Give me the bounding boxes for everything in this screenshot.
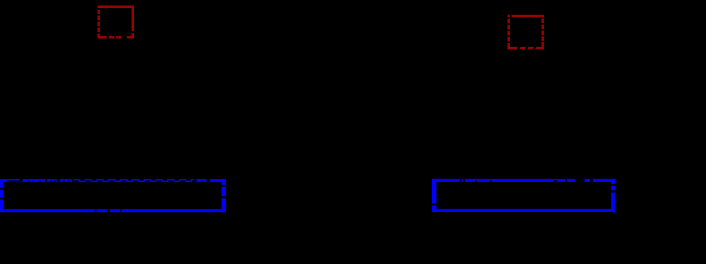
svg-text:NET_E: NET_E bbox=[440, 192, 469, 202]
glyph occlusion notches over right blue box top edge (black text cuts) bbox=[459, 179, 593, 182]
highlight box: changed net-label text, left sheet (blue rectangle) bbox=[0, 179, 226, 212]
svg-text:NET_B: NET_B bbox=[8, 192, 37, 202]
resistor R2 (hidden black symbol, right sheet) bbox=[516, 22, 535, 43]
wire: R1 to net label block (left sheet) bbox=[114, 34, 116, 179]
highlight box: changed symbol, right sheet (red dashed square) bbox=[508, 15, 544, 50]
wire: R2 to net label block (right sheet) bbox=[524, 43, 526, 179]
svg-text:NET_A: NET_A bbox=[8, 181, 37, 191]
net label text rows (hidden black text, left sheet) bbox=[8, 181, 38, 213]
glyph occlusion notches over left blue box top edge (black text cuts) bbox=[7, 179, 210, 182]
net label text rows (hidden black text, right sheet) bbox=[440, 181, 470, 202]
svg-text:NET_D: NET_D bbox=[440, 181, 470, 191]
resistor R1 (hidden black symbol, left sheet) bbox=[106, 13, 125, 34]
highlight box: changed net-label text, right sheet (blue rectangle) bbox=[432, 179, 615, 213]
highlight box: changed symbol, left sheet (red dashed square) bbox=[98, 6, 135, 39]
